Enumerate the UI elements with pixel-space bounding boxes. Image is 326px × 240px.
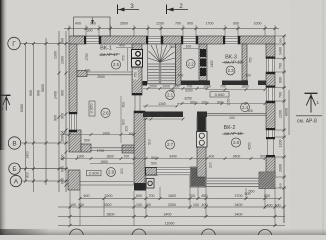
vent box with circle: [146, 179, 154, 189]
window W8 right: [266, 130, 274, 137]
window W2 top: [148, 36, 161, 43]
wall stub y111 right: [197, 112, 207, 118]
right edge crease: [323, 0, 324, 235]
stair center stringer: [158, 62, 160, 84]
node axis-G line: [20, 43, 70, 45]
axis bubble A: [10, 175, 21, 186]
jamb blocks right wall: [266, 57, 275, 158]
room number circles: [101, 59, 250, 176]
window W6 right: [266, 59, 274, 73]
window W3 top: [183, 36, 196, 43]
left chain ticks: [24, 42, 68, 187]
dimension texts left rotated: [20, 38, 65, 184]
wire bottom extensions: [69, 190, 71, 226]
window band left end block: [146, 168, 158, 176]
wall center step-left: [122, 145, 134, 153]
axis bubble B: [9, 163, 20, 174]
dimension texts right rotated: [279, 38, 289, 189]
wall center vertical upper: [132, 44, 142, 95]
wire left dim chains: [25, 44, 27, 182]
wall right mid1: [266, 72, 275, 88]
window band bottom-left section: [146, 167, 190, 175]
wall left L-foot: [81, 144, 91, 152]
terrace edge lines: [80, 148, 134, 185]
wall interior y82 seg3: [258, 81, 266, 86]
room labels: [100, 46, 242, 137]
window W4 top: [225, 36, 238, 43]
interior dim ticks: [62, 87, 267, 160]
section marker 1 left: [0, 95, 11, 110]
stair treads: [148, 63, 160, 65]
wire right extensions: [275, 35, 286, 37]
stairs: [148, 44, 176, 84]
window W7 right: [266, 88, 274, 102]
dimension texts bottom: [70, 192, 281, 226]
jamb blocks center wall: [132, 93, 145, 113]
door opening right wall: [268, 137, 274, 157]
wire right dim chains: [283, 36, 285, 223]
wire top dim line: [64, 28, 279, 30]
jamb blocks left wall: [69, 112, 77, 132]
wire bottom dim rows: [80, 198, 280, 200]
stair fan: [148, 58, 160, 62]
left scan edge shadow: [0, 0, 7, 150]
wall center bottom cap: [134, 183, 146, 191]
wall kitchen vertical x197 lower: [197, 117, 206, 177]
wire: [20, 29, 289, 226]
wall top segment 3: [161, 36, 183, 44]
wire top extensions: [68, 25, 70, 36]
jamb blocks top wall: [84, 36, 240, 44]
section marker 3 top: [118, 4, 140, 14]
benchmark symbol right: [305, 93, 318, 112]
node axis-V line: [21, 142, 68, 144]
wall left lower L: [69, 130, 81, 152]
fixture stove on kitchen wall: [197, 132, 208, 148]
partition lines under-stair room: [77, 72, 134, 75]
wall stair right: [176, 44, 182, 85]
wall bottom-right window band: [206, 178, 259, 187]
interior rotated dims: [85, 53, 253, 174]
wall top segment 1: [69, 36, 86, 44]
wall shaft upper x199: [199, 44, 207, 81]
bottom edge shadow: [0, 228, 326, 235]
wall interior y82 seg1: [181, 81, 210, 86]
value boxes: [87, 92, 230, 176]
wall top segment 5: [238, 36, 275, 44]
pier terrace left: [68, 170, 80, 190]
top row ticks: [68, 27, 277, 30]
walls: [68, 36, 275, 191]
wall right lower: [266, 157, 275, 177]
node axis-B line: [20, 168, 68, 170]
door opening center wall: [135, 95, 140, 111]
wall right upper: [266, 44, 275, 59]
wall right mid2: [266, 101, 275, 130]
partition room2.4 bottom: [207, 113, 266, 115]
axis bubble G: [8, 37, 272, 240]
dimension ticks: [24, 27, 286, 227]
window W1 top: [86, 36, 99, 43]
wall top segment 2: [99, 36, 148, 44]
interior dims: [60, 48, 265, 164]
see AR-8 note: [296, 115, 322, 117]
wall top segment 4: [196, 36, 225, 44]
pier bottom-center: [190, 167, 206, 187]
newel block: [143, 81, 148, 86]
section marker 2 top: [167, 4, 189, 14]
dimension texts top: [75, 22, 262, 33]
wall center vertical lower: [134, 111, 145, 184]
extension lines: [69, 25, 286, 226]
corner pier bottom-right: [259, 172, 275, 189]
window W5 left: [69, 114, 76, 130]
wall interior y82 seg2: [222, 81, 248, 86]
wall left upper: [69, 44, 77, 114]
canopy outline: [74, 17, 111, 36]
node axis-A line: [22, 180, 68, 182]
right chain ticks: [283, 35, 286, 190]
wall room2.7 top (black): [143, 112, 183, 118]
paper noise: [0, 0, 1, 1]
fixtures boiler left of stair: [132, 50, 143, 68]
bottom bubbles: [70, 229, 84, 240]
bottom rows ticks: [69, 197, 286, 227]
axis bubble V: [8, 137, 20, 149]
wall partition x242: [242, 44, 247, 81]
